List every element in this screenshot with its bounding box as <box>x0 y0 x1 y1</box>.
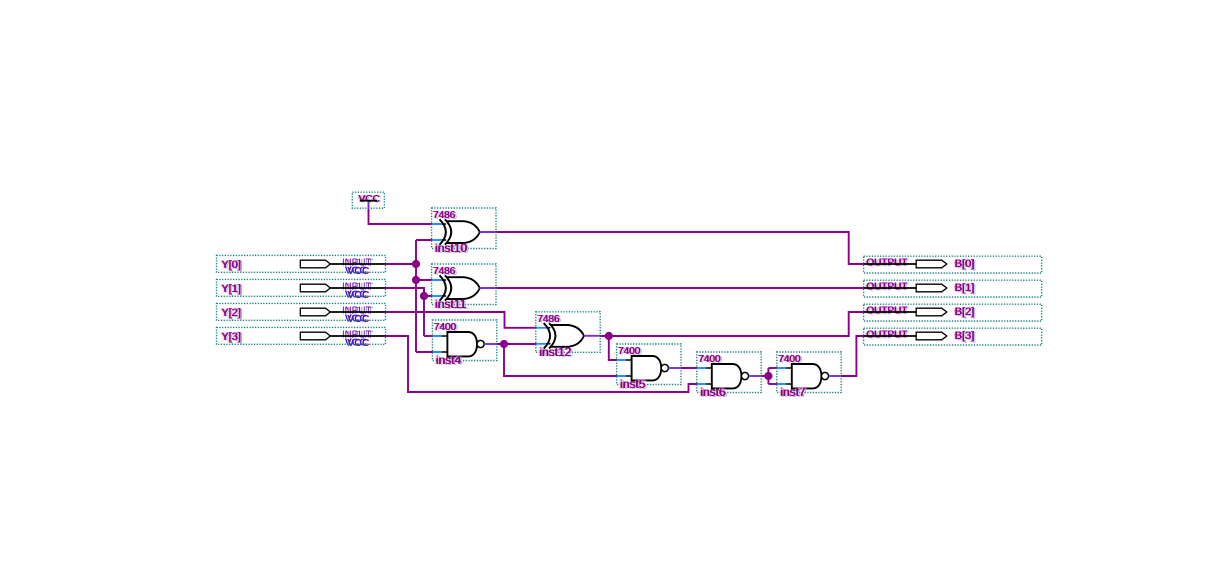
svg-text:inst5: inst5 <box>621 377 647 391</box>
svg-text:OUTPUT: OUTPUT <box>867 330 908 341</box>
svg-text:B[2]: B[2] <box>955 306 975 318</box>
part number label 7400 <box>697 354 723 366</box>
instance name label inst11 <box>434 297 469 312</box>
node A: junction at (416,264) <box>412 260 420 268</box>
pin name label Y[3] <box>220 331 243 344</box>
wire VCC net: VCC symbol to inst10 input 1 <box>369 208 433 224</box>
svg-text:7400: 7400 <box>619 346 642 357</box>
node E: junction at (608.8,336) <box>605 332 613 340</box>
power symbol label VCC <box>357 194 382 206</box>
pin name label B[3] <box>953 330 976 343</box>
instance name label inst5 <box>619 377 648 392</box>
svg-text:OUTPUT: OUTPUT <box>867 258 908 269</box>
wire net inst11 output to output pin B[1] <box>496 287 864 289</box>
XOR gate U inst11 (7486) <box>432 264 496 305</box>
svg-text:7486: 7486 <box>434 210 457 221</box>
wire net Y[0]: pin Y[0] to junction <box>386 263 417 265</box>
wire net Y[2]: pin Y[2] to inst12 input 1 <box>386 312 537 328</box>
node F: junction at (768.4,376) <box>764 372 772 380</box>
part number label 7400 <box>777 354 803 366</box>
part number label 7400 <box>617 346 643 358</box>
node B: junction at (416,280) <box>412 276 420 284</box>
pin type label INPUT <box>342 282 374 294</box>
svg-text:OUTPUT: OUTPUT <box>867 282 908 293</box>
svg-text:B[3]: B[3] <box>955 330 975 342</box>
wire net inst10 output to output pin B[0] <box>496 232 864 264</box>
pin type label OUTPUT <box>865 282 910 294</box>
wire net inst12 output branch to inst5 input 1 <box>609 336 617 360</box>
svg-text:VCC: VCC <box>359 194 380 205</box>
wire net Y[1]: pin Y[1] to corner <box>386 288 425 336</box>
wire net inst7 output to output pin B[3] <box>841 336 864 376</box>
svg-text:7486: 7486 <box>538 314 561 325</box>
part number label 7486 <box>536 314 562 326</box>
svg-text:inst12: inst12 <box>540 345 572 359</box>
svg-text:OUTPUT: OUTPUT <box>867 306 908 317</box>
pin type label OUTPUT <box>865 330 910 342</box>
wire net inst6 output to junction <box>761 375 769 377</box>
pin name label Y[0] <box>220 259 243 272</box>
instance name label inst10 <box>434 241 470 256</box>
wire net branch to inst7 input 1 <box>768 367 777 369</box>
input pin Y[3] <box>217 327 386 344</box>
pin name label B[2] <box>953 306 976 319</box>
NAND gate U inst5 (7400) <box>617 344 681 385</box>
part number label 7486 <box>432 210 458 222</box>
wire net Y[0]: branch to inst10 input 2 <box>416 239 433 241</box>
svg-text:7486: 7486 <box>434 266 457 277</box>
pin default value label VCC <box>345 313 370 325</box>
svg-text:7400: 7400 <box>779 354 802 365</box>
pin name label Y[2] <box>220 307 243 320</box>
part number label 7400 <box>432 322 458 334</box>
power symbol VCC <box>352 192 384 208</box>
wire net inst5 output to inst6 input 1 <box>680 367 697 369</box>
instance name label inst4 <box>434 353 463 368</box>
svg-text:inst4: inst4 <box>436 353 462 367</box>
pin type label INPUT <box>342 306 374 318</box>
pin default value label VCC <box>345 265 370 277</box>
pin default value label VCC <box>345 337 370 349</box>
pin type label INPUT <box>342 258 374 270</box>
svg-text:VCC: VCC <box>345 265 368 277</box>
svg-text:inst7: inst7 <box>781 385 807 399</box>
svg-text:Y[3]: Y[3] <box>222 331 242 343</box>
instance name label inst6 <box>699 385 728 400</box>
wire net Y[0]: branch to inst4 input 2 <box>416 351 433 353</box>
output pin B[3] <box>864 328 1042 345</box>
pin name label B[1] <box>953 282 976 295</box>
wire net Y[1]: branch to inst4 input 1 <box>424 335 433 337</box>
input pin Y[2] <box>217 303 386 320</box>
pin type label OUTPUT <box>865 306 910 318</box>
pin name label Y[1] <box>220 283 243 296</box>
instance name label inst12 <box>538 345 574 360</box>
wire net inst6 output fanout vertical <box>767 368 769 384</box>
output pin B[2] <box>864 304 1042 321</box>
input pin Y[0] <box>217 255 386 272</box>
wire net inst4 output branch to inst5 input 2 <box>504 344 617 376</box>
svg-text:VCC: VCC <box>345 289 368 301</box>
pin type label OUTPUT <box>865 258 910 270</box>
svg-text:7400: 7400 <box>699 354 722 365</box>
svg-text:B[0]: B[0] <box>955 258 975 270</box>
instance name label inst7 <box>779 385 808 400</box>
svg-text:VCC: VCC <box>345 313 368 325</box>
wire net Y[0]: vertical trunk <box>415 240 417 352</box>
wire net Y[0]: branch to inst11 input 1 <box>416 279 433 281</box>
wire net Y[3]: pin Y[3] to inst6 input 2 <box>386 336 698 392</box>
XOR gate U inst12 (7486) <box>536 312 600 353</box>
input pin Y[1] <box>217 279 386 296</box>
wire net inst4 output to inst12 input 2 <box>496 343 537 345</box>
svg-text:Y[2]: Y[2] <box>222 307 242 319</box>
wire net branch to inst7 input 2 <box>768 383 777 385</box>
output pin B[0] <box>864 256 1042 273</box>
NAND gate U inst7 (7400) <box>777 352 841 393</box>
svg-text:inst6: inst6 <box>701 385 727 399</box>
pin name label B[0] <box>953 258 976 271</box>
output pin B[1] <box>864 280 1042 297</box>
svg-text:B[1]: B[1] <box>955 282 975 294</box>
svg-text:VCC: VCC <box>345 337 368 349</box>
NAND gate U inst4 (7400) <box>432 320 496 361</box>
pin default value label VCC <box>345 289 370 301</box>
svg-text:Y[1]: Y[1] <box>222 283 242 295</box>
part number label 7486 <box>432 266 458 278</box>
svg-text:7400: 7400 <box>434 322 457 333</box>
XOR gate U inst10 (7486) <box>432 208 496 249</box>
svg-text:inst11: inst11 <box>436 297 467 311</box>
node D: junction at (504,344) <box>500 340 508 348</box>
wire net Y[1]: branch to inst11 input 2 <box>424 295 433 297</box>
wire net inst12 output to output pin B[2] <box>600 312 864 336</box>
svg-text:inst10: inst10 <box>436 241 468 255</box>
NAND gate U inst6 (7400) <box>697 352 761 393</box>
svg-text:Y[0]: Y[0] <box>222 259 242 271</box>
pin type label INPUT <box>342 330 374 342</box>
node C: junction at (424,296) <box>420 292 428 300</box>
